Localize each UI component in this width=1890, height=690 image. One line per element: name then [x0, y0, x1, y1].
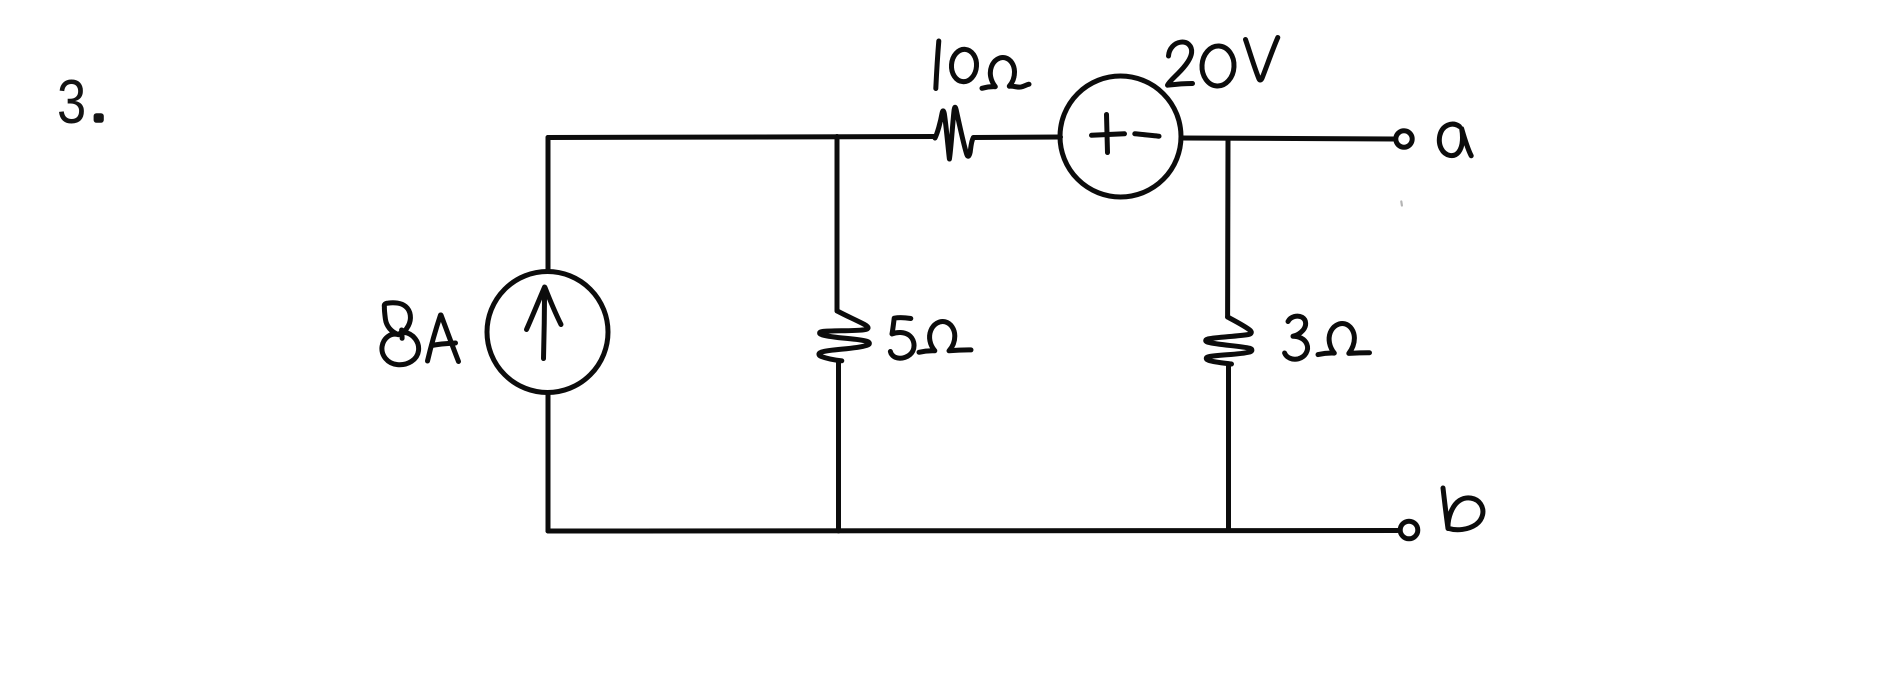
- wire voltage source to terminal a: [1181, 138, 1394, 139]
- resistor R 5ohm zigzag: [819, 311, 869, 361]
- V1 plus sign: [1092, 134, 1125, 136]
- wire bottom horizontal (node bottom): [548, 528, 1398, 534]
- wire 10-ohm to voltage source: [974, 135, 1061, 141]
- svg-text:3: 3: [57, 68, 86, 137]
- label 8A: letter A: [428, 315, 441, 361]
- label b (handwritten): [1443, 488, 1483, 530]
- label 20V: digit 2: [1168, 42, 1193, 85]
- wire: current source to bottom-left corner: [546, 393, 551, 532]
- wire: mid branch top vertical: [835, 137, 840, 312]
- wire: top node down-left vertical to current source: [546, 138, 551, 272]
- label 10ohm: digit 0: [950, 48, 977, 82]
- label 5ohm: omega: [919, 321, 971, 352]
- label 5ohm: digit 5: [890, 318, 914, 358]
- wire: mid branch bottom vertical: [836, 361, 841, 531]
- label 20V: digit 0: [1201, 45, 1235, 87]
- wire top-left horizontal (node top to 10-ohm): [548, 137, 934, 138]
- node junction: top wire to 3-ohm branch: [1225, 139, 1230, 318]
- voltage source V1 20V circle: [1060, 76, 1181, 197]
- I1 arrow left barb: [527, 287, 545, 330]
- terminal a open circle: [1396, 131, 1412, 147]
- resistor R 3ohm zigzag: [1206, 317, 1252, 364]
- wire 3-ohm to bottom: [1226, 365, 1231, 531]
- label 8A: digit 8 bottom loop: [382, 332, 419, 364]
- label 3ohm: digit 3: [1285, 316, 1308, 359]
- label 10ohm: digit 1: [936, 41, 939, 89]
- I1 arrow right barb: [545, 288, 561, 325]
- label 8A: digit 8 top loop: [384, 303, 410, 335]
- I1 arrow shaft: [544, 288, 545, 359]
- label 3ohm: omega: [1318, 323, 1370, 354]
- current source I1 8A circle: [487, 272, 608, 393]
- faint stray mark under terminal a: [1400, 202, 1403, 206]
- V1 minus sign: [1135, 134, 1159, 136]
- label 10ohm: omega: [982, 57, 1029, 88]
- label 8A: digit 8 stub: [399, 330, 405, 338]
- terminal b open circle: [1400, 521, 1418, 539]
- label 20V: letter V: [1246, 38, 1278, 80]
- resistor R 10ohm zigzag: [935, 107, 973, 159]
- label a (handwritten): [1439, 124, 1471, 156]
